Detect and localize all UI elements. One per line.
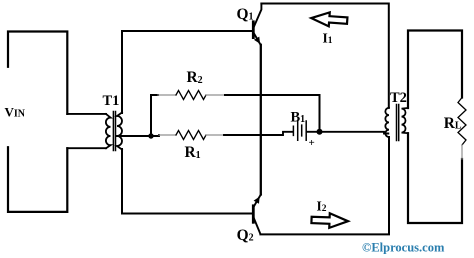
current arrow I2 xyxy=(311,213,348,229)
transformer T1 primary winding xyxy=(106,114,111,148)
transformer T1 core xyxy=(113,112,115,151)
wire battery node to T2 center tap xyxy=(320,132,389,134)
svg-text:+: + xyxy=(309,137,315,149)
transistor Q1 collector lead xyxy=(254,4,261,27)
wire emitter bus Q1 to Q2 xyxy=(260,45,262,195)
resistor R1 xyxy=(176,131,206,140)
wire T1 secondary bottom to Q2 base xyxy=(122,149,252,214)
wire node to R2 xyxy=(151,95,158,136)
transistor Q2 emitter arrow xyxy=(254,197,260,204)
transformer T2 secondary winding xyxy=(402,108,409,133)
node center tap junction xyxy=(148,133,153,138)
transformer T2 core xyxy=(397,105,399,141)
svg-text:T2: T2 xyxy=(390,90,407,106)
wire R1 to battery xyxy=(206,134,224,136)
battery B1 xyxy=(293,121,306,140)
resistor R2 xyxy=(176,91,206,100)
wire T1 center tap xyxy=(117,135,151,137)
wire bottom rail to T2 xyxy=(260,137,389,234)
svg-text:Q2: Q2 xyxy=(237,227,254,244)
transistor Q1 emitter arrow xyxy=(254,37,260,44)
load box outline xyxy=(408,31,462,224)
transistor Q2 base bar xyxy=(252,206,255,223)
svg-text:©Elprocus.com: ©Elprocus.com xyxy=(362,241,445,255)
wire top rail to T2 xyxy=(261,4,388,108)
svg-text:Q1: Q1 xyxy=(237,6,254,23)
wire T1 secondary top to Q1 base xyxy=(122,31,252,113)
current arrow I1 xyxy=(311,11,348,27)
wire node to R1 xyxy=(151,135,159,136)
transistor Q1 emitter lead xyxy=(254,34,261,45)
transistor Q1 base bar xyxy=(252,22,255,38)
svg-text:I1: I1 xyxy=(323,31,333,47)
wire VIN to T1 primary bottom xyxy=(67,147,106,149)
svg-text:VIN: VIN xyxy=(5,105,26,120)
source VIN box xyxy=(8,32,67,212)
transformer T2 primary winding xyxy=(385,108,389,137)
transformer T1 secondary winding xyxy=(117,113,122,150)
svg-text:T1: T1 xyxy=(103,93,120,109)
svg-text:I2: I2 xyxy=(317,199,327,215)
transistor Q2 collector lead xyxy=(254,219,260,235)
node battery junction xyxy=(317,129,323,135)
svg-text:B1: B1 xyxy=(291,110,306,126)
svg-text:RL: RL xyxy=(444,115,462,132)
resistor RL xyxy=(458,98,466,146)
wire R2 to battery node xyxy=(206,94,225,96)
svg-text:R2: R2 xyxy=(187,69,203,86)
wire battery to node xyxy=(307,131,320,133)
svg-text:R1: R1 xyxy=(185,144,201,161)
transistor Q2 emitter lead xyxy=(254,195,261,207)
wire VIN to T1 primary top xyxy=(67,113,106,115)
